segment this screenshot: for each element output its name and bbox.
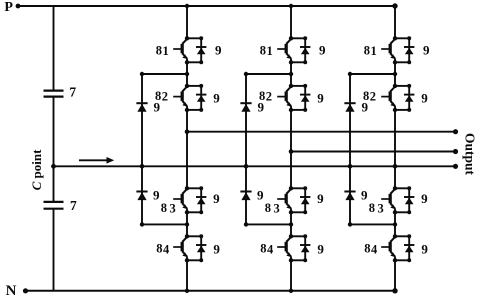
node 8-3 leg2 collector junction [289, 186, 293, 190]
wire leg 2: S4 emitter to N rail [290, 260, 292, 291]
node output terminal 2 [453, 149, 458, 154]
transistor 8-2 leg1 IGBT symbol [173, 96, 181, 98]
wire 8-2 leg3 freewheel diode branch [395, 85, 409, 87]
node leg 1 clamp branch to C line [140, 164, 145, 169]
node 8-3 leg1 collector junction [185, 186, 189, 190]
wire leg 2 clamp top connector [246, 73, 291, 75]
wire 8-1 leg1 freewheel diode branch [187, 37, 201, 39]
node leg 3 clamp branch to C line [348, 164, 353, 169]
transistor 8-3 leg1 IGBT symbol [173, 198, 181, 200]
node leg 2 N-rail junction [289, 289, 293, 293]
node leg 1 clamp-bottom corner [140, 222, 144, 226]
diode D8-2 leg1 freewheel (cathode up) [196, 94, 206, 96]
node 8-4 leg1 collector junction [185, 234, 189, 238]
terminal dot N [23, 288, 28, 293]
node leg 3 clamp-top junction [393, 72, 397, 76]
svg-text:9: 9 [421, 90, 428, 105]
wire leg 1: S2 emitter to S3 collector (midpoint) [186, 110, 188, 188]
diode 9 lower clamp leg3 clamping (cathode up) [344, 191, 355, 193]
wire leg 1 clamp branch vertical [141, 74, 143, 224]
transistor 8-3 leg2 IGBT symbol [277, 198, 285, 200]
wire leg 3 clamp bottom connector [350, 223, 395, 225]
node 8-3 leg3 collector junction [393, 186, 397, 190]
wire leg 2: S3 emitter to S4 collector [290, 212, 292, 236]
wire leg 2: S1 emitter to S2 collector [290, 62, 292, 86]
terminal dot P [16, 4, 21, 9]
node leg 3 P-rail junction [392, 3, 397, 8]
wire leg 3: S3 emitter to S4 collector [394, 212, 396, 236]
output line phase 2 [291, 151, 456, 153]
node 8-4 leg1 emitter junction [185, 258, 189, 262]
node leg 1 P-rail junction [185, 4, 189, 8]
wire leg 1: S4 emitter to N rail [186, 260, 188, 291]
node 8-4 leg2 emitter junction [289, 258, 293, 262]
node leg 2 clamp-top junction [289, 72, 293, 76]
wire 8-4 leg1 freewheel diode branch [187, 235, 201, 237]
wire 8-3 leg2 freewheel diode branch [291, 187, 305, 189]
wire 8-4 leg3 freewheel diode branch [395, 235, 409, 237]
diode D8-1 leg2 freewheel (cathode up) [300, 46, 310, 48]
node 8-3 leg2 emitter junction [289, 210, 293, 214]
node leg 2 clamp-bottom corner [244, 222, 248, 226]
svg-text:9: 9 [319, 42, 326, 57]
neutral / C-point horizontal line and phase-3 output line [54, 165, 456, 167]
node 8-2 leg1 collector junction [185, 84, 189, 88]
wire 8-3 leg1 freewheel diode branch [187, 187, 201, 189]
svg-text:P: P [4, 0, 13, 15]
diode D8-2 leg2 freewheel (cathode up) [300, 94, 310, 96]
svg-text:81: 81 [156, 43, 170, 58]
diode 9 upper clamp leg3 clamping (cathode up) [344, 102, 355, 104]
capacitor 7 lower [44, 201, 64, 203]
capacitor 7 upper [44, 89, 64, 91]
node 8-1 leg3 emitter junction [393, 60, 397, 64]
node leg 1 clamp-bottom junction [185, 222, 189, 226]
wire leg 3: P rail to S1 collector [394, 6, 396, 38]
diode D8-4 leg2 freewheel (cathode up) [300, 244, 310, 246]
diode D8-3 leg2 freewheel (cathode up) [300, 196, 310, 198]
transistor 8-4 leg2 IGBT symbol [277, 246, 285, 248]
diode 9 upper clamp leg2 clamping (cathode up) [240, 102, 251, 104]
diode 9 lower clamp leg2 clamping (cathode up) [240, 191, 251, 193]
node 8-3 leg3 emitter junction [393, 210, 397, 214]
svg-text:84: 84 [364, 242, 378, 257]
wire leg 3: S2 emitter to S3 collector (midpoint) [394, 110, 396, 188]
node 8-2 leg3 emitter junction [393, 108, 397, 112]
node 8-1 leg1 emitter junction [185, 60, 189, 64]
svg-text:9: 9 [361, 187, 368, 202]
svg-text:9: 9 [423, 42, 430, 57]
transistor 8-3 leg3 IGBT symbol [381, 198, 389, 200]
node leg 3 N-rail junction [392, 288, 397, 293]
node leg 2 P-rail junction [289, 4, 293, 8]
diode D8-4 leg1 freewheel (cathode up) [196, 244, 206, 246]
P rail (positive DC bus) [18, 5, 395, 7]
wire 8-2 leg1 freewheel diode branch [187, 85, 201, 87]
svg-text:Output: Output [463, 133, 478, 176]
node leg 3 clamp-top corner [348, 72, 352, 76]
node leg 1 output tap [185, 129, 190, 134]
svg-text:9: 9 [257, 100, 264, 115]
node leg 2 clamp-bottom junction [289, 222, 293, 226]
transistor 8-2 leg3 IGBT symbol [381, 96, 389, 98]
svg-text:9: 9 [317, 191, 324, 206]
svg-text:9: 9 [421, 241, 428, 256]
wire leg 1: S1 emitter to S2 collector [186, 62, 188, 86]
wire leg 3 clamp branch vertical [349, 74, 351, 224]
diode D8-3 leg3 freewheel (cathode up) [404, 196, 414, 198]
transistor 8-1 leg2 IGBT symbol [277, 48, 285, 50]
N rail (negative DC bus) [26, 290, 396, 292]
diode D8-1 leg3 freewheel (cathode up) [404, 46, 414, 48]
wire leg 1: S3 emitter to S4 collector [186, 212, 188, 236]
svg-text:83: 83 [369, 201, 387, 216]
svg-text:7: 7 [70, 198, 77, 213]
transistor 8-4 leg3 IGBT symbol [381, 246, 389, 248]
svg-text:9: 9 [317, 90, 324, 105]
node 8-2 leg1 emitter junction [185, 108, 189, 112]
wire leg 1 clamp top connector [142, 73, 187, 75]
node 8-1 leg1 collector junction [185, 36, 189, 40]
diode D8-4 leg3 freewheel (cathode up) [404, 244, 414, 246]
node C point junction [51, 164, 56, 169]
svg-text:84: 84 [156, 242, 170, 257]
wire DC-link capacitor leg lower [53, 209, 55, 291]
wire 8-1 leg3 freewheel diode branch [395, 37, 409, 39]
wire leg 1: P rail to S1 collector [186, 6, 188, 38]
wire leg 2 clamp branch vertical [245, 74, 247, 224]
diode 9 upper clamp leg1 clamping (cathode up) [136, 102, 147, 104]
node leg 2 output tap [289, 149, 294, 154]
wire 8-4 leg2 freewheel diode branch [291, 235, 305, 237]
node leg 1 clamp-top corner [140, 72, 144, 76]
svg-text:9: 9 [153, 100, 160, 115]
transistor 8-1 leg3 IGBT symbol [381, 48, 389, 50]
node leg 1 clamp-top junction [185, 72, 189, 76]
wire 8-2 leg2 freewheel diode branch [291, 85, 305, 87]
wire leg 3: S1 emitter to S2 collector [394, 62, 396, 86]
node leg 1 N-rail junction [185, 289, 189, 293]
svg-text:84: 84 [260, 242, 274, 257]
svg-text:9: 9 [257, 187, 264, 202]
node 8-2 leg2 collector junction [289, 84, 293, 88]
arrow current direction at C point [79, 159, 108, 161]
transistor 8-1 leg1 IGBT symbol [173, 48, 181, 50]
wire 8-1 leg2 freewheel diode branch [291, 37, 305, 39]
svg-text:C point: C point [29, 149, 44, 190]
node leg 2 clamp branch to C line [244, 164, 249, 169]
svg-text:83: 83 [265, 201, 283, 216]
diode D8-3 leg1 freewheel (cathode up) [196, 196, 206, 198]
wire leg 1 clamp bottom connector [142, 223, 187, 225]
wire 8-3 leg3 freewheel diode branch [395, 187, 409, 189]
svg-text:9: 9 [361, 100, 368, 115]
wire leg 3: S4 emitter to N rail [394, 260, 396, 291]
wire between capacitors [53, 97, 55, 202]
svg-text:9: 9 [213, 90, 220, 105]
node 8-4 leg3 collector junction [393, 234, 397, 238]
node leg 2 clamp-top corner [244, 72, 248, 76]
node leg 3 clamp-bottom junction [393, 222, 397, 226]
svg-text:83: 83 [161, 201, 179, 216]
svg-text:81: 81 [260, 43, 274, 58]
svg-text:9: 9 [213, 241, 220, 256]
svg-text:9: 9 [213, 191, 220, 206]
wire leg 2: S2 emitter to S3 collector (midpoint) [290, 110, 292, 188]
diode 9 lower clamp leg1 clamping (cathode up) [136, 191, 147, 193]
diode D8-2 leg3 freewheel (cathode up) [404, 94, 414, 96]
node 8-2 leg3 collector junction [393, 84, 397, 88]
transistor 8-4 leg1 IGBT symbol [173, 246, 181, 248]
svg-text:9: 9 [317, 241, 324, 256]
wire leg 3 clamp top connector [350, 73, 395, 75]
node 8-1 leg3 collector junction [393, 36, 397, 40]
svg-text:9: 9 [421, 191, 428, 206]
node leg 3 clamp-bottom corner [348, 222, 352, 226]
wire leg 2: P rail to S1 collector [290, 6, 292, 38]
node 8-4 leg2 collector junction [289, 234, 293, 238]
svg-text:9: 9 [215, 42, 222, 57]
svg-text:81: 81 [364, 43, 378, 58]
svg-text:7: 7 [69, 85, 76, 100]
svg-text:N: N [6, 283, 17, 298]
node output terminal 3 [453, 164, 458, 169]
wire leg 2 clamp bottom connector [246, 223, 291, 225]
node leg 3 output tap [393, 164, 398, 169]
node 8-4 leg3 emitter junction [393, 258, 397, 262]
diode D8-1 leg1 freewheel (cathode up) [196, 46, 206, 48]
node 8-3 leg1 emitter junction [185, 210, 189, 214]
node 8-1 leg2 emitter junction [289, 60, 293, 64]
node output terminal 1 [453, 129, 458, 134]
node 8-2 leg2 emitter junction [289, 108, 293, 112]
svg-text:9: 9 [153, 187, 160, 202]
transistor 8-2 leg2 IGBT symbol [277, 96, 285, 98]
output line phase 1 [187, 131, 456, 133]
node 8-1 leg2 collector junction [289, 36, 293, 40]
wire DC-link capacitor leg upper [53, 6, 55, 91]
